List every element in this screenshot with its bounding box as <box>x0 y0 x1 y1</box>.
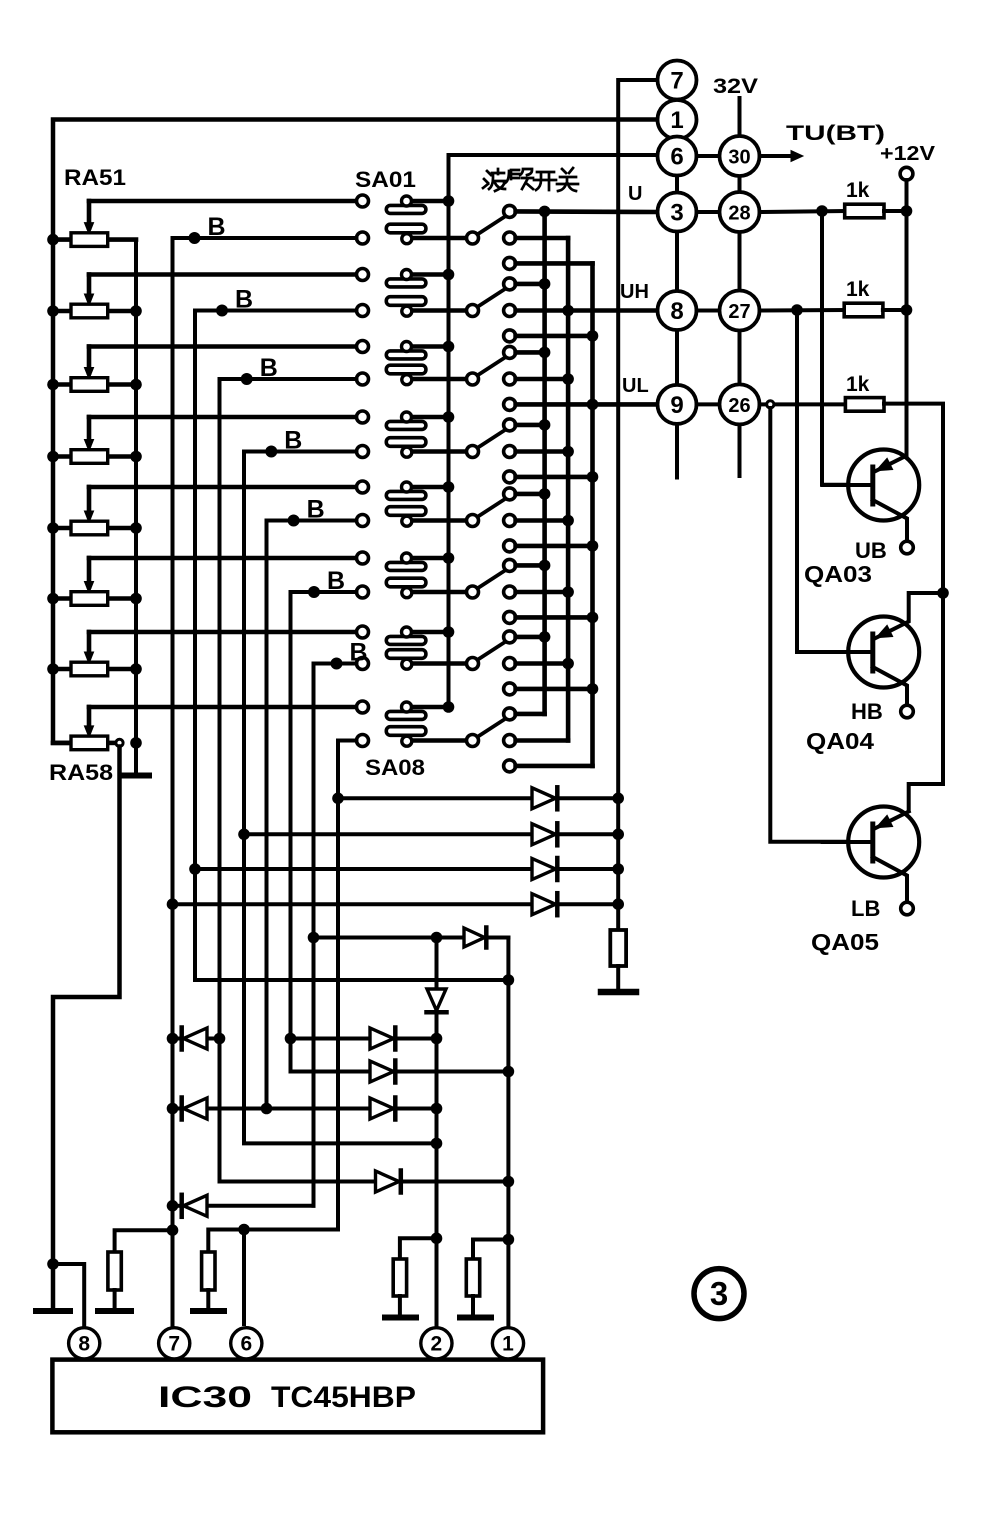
label U <box>628 183 642 205</box>
svg-text:1k: 1k <box>846 278 870 301</box>
junction bus2 <box>562 586 574 598</box>
junction bus2 <box>562 515 574 527</box>
svg-text:28: 28 <box>728 203 750 225</box>
junction bus2 <box>562 305 574 317</box>
junction on pin7 riser <box>167 1224 179 1236</box>
potentiometer RA52 <box>53 275 136 318</box>
label SA08 <box>365 755 425 780</box>
junction lower-left (pin 8 tap) <box>47 1258 59 1270</box>
wire: diode row 3 <box>195 867 618 871</box>
transistor QA04 (PNP) <box>806 617 919 755</box>
terminal circle pin 30 <box>720 136 760 176</box>
diode D-A (pointing right) <box>464 928 486 948</box>
junction bus3 <box>587 471 599 483</box>
ground (below RA58 bus) <box>121 743 149 776</box>
junction on pin7 riser <box>167 1103 179 1115</box>
band-switch wafer 7 (rotary contacts) <box>467 631 516 695</box>
junction on B2 riser (diode row) <box>189 863 201 875</box>
junction SA bus row 7 <box>443 626 455 638</box>
terminal circle pin 3 <box>658 193 697 232</box>
wire: pot wiper row to SA07 top terminal <box>89 630 356 635</box>
potentiometer RA55 <box>53 487 136 535</box>
terminal circle pin 1 <box>658 100 697 139</box>
IC pin 6 circle <box>231 1328 262 1359</box>
junction on pot bus <box>130 522 142 534</box>
label SA01 <box>355 167 416 192</box>
svg-text:TU(BT): TU(BT) <box>786 122 885 145</box>
svg-text:LB: LB <box>851 896 880 921</box>
wire net B8 (SA08 riser to row I) <box>208 741 356 1253</box>
wire: pot wiper row to SA03 top terminal <box>89 344 356 349</box>
wire: main bus from pin 7 to matrix pull-down <box>618 80 657 930</box>
svg-text:SA08: SA08 <box>365 755 425 780</box>
junction bus1 <box>539 631 551 643</box>
wire net B1 (SA01 to IC pin 7 riser) <box>173 238 357 1328</box>
wire net B3 (SA03 riser to row F) <box>220 379 509 1182</box>
transistor QA05 (PNP) <box>811 807 919 956</box>
wire: to IC pin 8 <box>53 1264 84 1328</box>
IC pin 2 circle <box>421 1328 452 1359</box>
wire: wafer8 top contact to bus1 <box>516 712 545 717</box>
junction bus1 <box>539 560 551 572</box>
svg-text:TC45HBP: TC45HBP <box>271 1381 416 1414</box>
band-switch wafer 1 (rotary contacts) <box>467 205 516 269</box>
diode DR3 (pointing right) <box>532 858 557 880</box>
svg-text:+12V: +12V <box>880 143 936 165</box>
junction bus1 <box>539 206 551 218</box>
wire: row C left segment <box>173 1037 220 1041</box>
wire net B2 (SA02 riser to row B) <box>195 311 508 981</box>
diode DR2 (pointing right) <box>532 823 557 845</box>
pushbutton switch SA06 <box>357 552 468 598</box>
wire: QA05 base riser <box>770 408 848 842</box>
wire: circle6-30 link <box>697 154 720 158</box>
wire: wafer6 mid contact to bus2 <box>516 590 569 595</box>
terminal +12V <box>900 167 913 180</box>
band-switch wafer 6 (rotary contacts) <box>467 559 516 623</box>
wire: RA58 output to lower-left ground rail <box>53 747 120 1308</box>
diode D-EL (pointing left) <box>182 1098 207 1120</box>
wire+ground pin2 resistor <box>385 1296 416 1318</box>
wire: pot wiper row to SA04 top terminal <box>89 415 356 420</box>
junction SA bus row 8 <box>443 701 455 713</box>
potentiometer RA54 <box>53 417 136 463</box>
svg-text:1k: 1k <box>846 373 870 396</box>
net label B (unit 5) <box>288 496 325 527</box>
junction on pot bus <box>130 451 142 463</box>
resistor R-pin2 <box>393 1259 406 1296</box>
wire: circle8-27 link <box>697 309 720 313</box>
junction on pot bus <box>130 593 142 605</box>
svg-text:30: 30 <box>728 147 750 169</box>
wire: wafer6 bottom contact to bus3 <box>516 615 593 620</box>
wire: band bus 1 (top contacts) <box>542 211 547 714</box>
IC pin 7 circle <box>159 1328 190 1359</box>
label UH <box>620 281 649 303</box>
arrow TU(BT) <box>760 122 886 162</box>
svg-text:7: 7 <box>168 1333 180 1356</box>
wire: pot wiper row to SA02 top terminal <box>89 272 356 277</box>
wire: circle-6 row to SA common bus <box>449 155 658 707</box>
junction on pot bus <box>130 737 142 749</box>
wire net B5 (SA05 riser) <box>267 521 357 1109</box>
terminal circle pin 6 <box>658 137 697 176</box>
wire: QA04 base riser <box>797 310 847 652</box>
net label B (unit 4) <box>265 427 302 458</box>
junction row I / pin6 riser <box>238 1224 250 1236</box>
wire: pot wiper row to SA01 top terminal <box>89 199 356 204</box>
resistor R-pin7 <box>108 1252 121 1290</box>
junction bus2 <box>562 446 574 458</box>
svg-text:26: 26 <box>728 395 750 417</box>
wire: circle9-26 link <box>697 402 720 406</box>
resistor 1k-3 <box>845 373 884 411</box>
junction row D / pin1 riser <box>503 1066 515 1078</box>
wire: row A <box>314 936 509 940</box>
junction on left frame (pot 3 row) <box>47 379 59 391</box>
svg-text:U: U <box>628 183 642 205</box>
resistor 1k-1 <box>845 179 884 218</box>
pushbutton switch SA05 <box>357 481 468 527</box>
junction row B / pin1 riser <box>503 974 515 986</box>
junction bus1 <box>539 347 551 359</box>
wire: wafer7 top contact to bus1 <box>516 635 545 640</box>
band-switch wafer 4 (rotary contacts) <box>467 419 516 483</box>
junction on left frame (pot 1 row) <box>47 234 59 246</box>
svg-text:RA51: RA51 <box>64 165 126 190</box>
wire: row H <box>173 1204 314 1208</box>
junction main bus / diode row <box>612 863 624 875</box>
node (open) QA05 base tap <box>767 401 774 408</box>
band-switch wafer 3 (rotary contacts) <box>467 346 516 410</box>
junction bus3 <box>587 330 599 342</box>
terminal circle pin 27 <box>720 291 760 331</box>
diode D-F (row F, pointing right) <box>376 1171 401 1193</box>
diode D-D (row D, pointing right) <box>370 1061 395 1083</box>
wire: wafer7 mid contact to bus2 <box>516 661 569 666</box>
junction bus3 <box>587 683 599 695</box>
wire: wafer2 top contact to bus1 <box>516 282 545 287</box>
wire: pin-1 net top rail and left frame bus <box>53 120 658 743</box>
wire: wafer1 mid contact to bus2 <box>516 236 569 241</box>
wire: band bus 3 (bottom contacts) <box>590 263 595 766</box>
junction on left frame (pot 7 row) <box>47 663 59 675</box>
junction QA03 base tap <box>816 205 828 217</box>
wire: diode row 2 <box>244 832 618 836</box>
net label B (unit 3) <box>241 354 278 385</box>
junction rail/1k-2 <box>901 304 913 316</box>
wire: 1k-3 to emitter rail of QA04/QA05 <box>884 404 943 810</box>
wire+ground pin1 resistor <box>460 1296 491 1318</box>
wire: pot wiper row to SA06 top terminal <box>89 556 356 561</box>
junction on left frame (pot 6 row) <box>47 593 59 605</box>
resistor R-pin1 <box>466 1259 479 1296</box>
svg-text:3: 3 <box>670 200 683 227</box>
label RA51 <box>64 165 126 190</box>
junction on left frame (pot 2 row) <box>47 305 59 317</box>
wire: +12V rail <box>905 180 909 456</box>
diode D-ER (pointing right) <box>370 1098 395 1120</box>
wire: QA03 emitter to +12V rail <box>905 454 907 458</box>
junction riser8 (diode row 1) <box>332 793 344 805</box>
junction on left frame (pot 4 row) <box>47 451 59 463</box>
svg-text:QA03: QA03 <box>804 561 872 587</box>
wire: wafer7 bottom contact to bus3 <box>516 687 593 692</box>
svg-text:1: 1 <box>670 107 683 134</box>
junction on left frame (pot 5 row) <box>47 522 59 534</box>
svg-text:HB: HB <box>851 699 883 724</box>
junction bus3 <box>587 399 599 411</box>
potentiometer RA51 <box>53 201 136 246</box>
wire: row UH (wafer2 mid to pin 8) <box>516 308 658 313</box>
wire: wafer5 bottom contact to bus3 <box>516 544 593 549</box>
svg-text:6: 6 <box>240 1333 252 1356</box>
wire: row U to 1k-1 <box>760 211 845 212</box>
junction bus2 <box>562 658 574 670</box>
wire: wafer5 mid contact to bus2 <box>516 518 569 523</box>
wire: IC pin 6 riser <box>242 1230 246 1325</box>
diode D-HL (pointing left) <box>182 1195 207 1217</box>
wire: diode row 1 <box>338 796 618 800</box>
terminal circle pin 28 <box>720 192 760 232</box>
band-switch wafer 2 (rotary contacts) <box>467 278 516 342</box>
junction row C / pin2 riser <box>431 1033 443 1045</box>
junction 943-rail / QA04 emitter <box>937 587 949 599</box>
junction main bus / diode row <box>612 829 624 841</box>
wire: QA03 base riser <box>822 211 847 485</box>
wire: 1k-2 to rail <box>883 308 907 312</box>
label RA58 <box>49 760 113 785</box>
wire: row E <box>173 1107 437 1111</box>
wire: wafer3 mid contact to bus2 <box>516 377 569 382</box>
RA58 output terminal circle <box>116 739 123 746</box>
junction on pot bus <box>130 663 142 675</box>
svg-text:7: 7 <box>670 68 683 95</box>
diode D-C (row C, pointing right) <box>370 1028 395 1050</box>
svg-text:QA04: QA04 <box>806 728 874 754</box>
wire: wafer4 bottom contact to bus3 <box>516 475 593 480</box>
net label B (unit 1) <box>189 213 226 244</box>
label +12V <box>880 143 936 165</box>
wire: QA05 emitter wire <box>905 812 909 814</box>
wire: wafer1 bottom contact to bus3 <box>516 261 593 266</box>
pushbutton switch SA03 <box>357 341 468 386</box>
svg-text:B: B <box>327 567 345 595</box>
potentiometer RA53 <box>53 347 136 392</box>
junction bus1 <box>539 488 551 500</box>
junction on pin7 riser <box>167 1200 179 1212</box>
potentiometer RA56 <box>53 558 136 605</box>
net label B (unit 2) <box>216 286 253 317</box>
wire: wafer6 top contact to bus1 <box>516 563 545 568</box>
svg-text:UL: UL <box>622 375 649 397</box>
junction main bus / diode row <box>612 793 624 805</box>
svg-text:1k: 1k <box>846 179 870 202</box>
junction B3/row C <box>214 1033 226 1045</box>
wire: 1k-1 to rail <box>884 209 907 213</box>
wire: QA04 emitter wire <box>905 593 943 624</box>
svg-text:8: 8 <box>78 1333 90 1356</box>
junction SA bus row 4 <box>443 411 455 423</box>
resistor R-pin6 <box>202 1252 215 1290</box>
terminal circle pin 9 <box>658 385 697 424</box>
wire: row U (wafer1 top to pin 3) <box>516 209 658 214</box>
svg-text:3: 3 <box>710 1275 728 1312</box>
sheet number 3 (circled) <box>694 1269 744 1319</box>
junction rail/1k-1 <box>901 205 913 217</box>
diode D-CL (pointing left) <box>182 1028 207 1050</box>
wire: wafer2 bottom contact to bus3 <box>516 334 593 339</box>
IC box IC30 TC45HBP <box>52 1360 543 1433</box>
diode DR1 (pointing right) <box>532 787 557 809</box>
junction on pin7 riser <box>167 1033 179 1045</box>
junction SA bus row 2 <box>443 269 455 281</box>
wire: wafer8 bottom contact to bus3 <box>516 764 593 769</box>
pushbutton switch SA02 <box>357 269 468 317</box>
terminal circle pin 8 <box>658 291 697 330</box>
pushbutton switch SA08 <box>357 701 468 747</box>
svg-text:8: 8 <box>670 298 683 325</box>
wire: pin 7 pull-down hook <box>115 1230 173 1252</box>
svg-text:IC30: IC30 <box>158 1381 252 1414</box>
wire: wafer4 top contact to bus1 <box>516 423 545 428</box>
diode DR4 (pointing right) <box>532 893 557 915</box>
wire: pot wiper row to SA08 top terminal <box>89 705 356 710</box>
svg-text:2: 2 <box>431 1333 443 1356</box>
junction B7/row A <box>308 932 320 944</box>
junction bus1 <box>539 419 551 431</box>
band-switch wafer 8 (rotary contacts) <box>467 708 516 772</box>
junction pin1 hook <box>503 1234 515 1246</box>
wire: IC pin 1 riser <box>506 938 510 1328</box>
svg-text:B: B <box>208 213 226 241</box>
junction on B4 riser (diode row) <box>238 829 250 841</box>
wire: band bus 2 (mid contacts) <box>566 238 571 741</box>
junction row E / pin2 riser <box>431 1103 443 1115</box>
ground (main bus) <box>601 989 636 996</box>
wire: main bus resistor to ground <box>616 966 620 988</box>
svg-text:6: 6 <box>670 144 683 171</box>
junction main bus / diode row <box>612 898 624 910</box>
junction row A / pin2 riser top <box>431 932 443 944</box>
junction bus3 <box>587 540 599 552</box>
wire: pin 1 pull-down hook <box>473 1240 508 1260</box>
svg-text:B: B <box>307 496 325 524</box>
potentiometer RA57 <box>53 632 136 676</box>
svg-text:9: 9 <box>670 392 683 419</box>
junction pin2 hook <box>431 1233 443 1245</box>
wire: wafer5 top contact to bus1 <box>516 492 545 497</box>
wire+ground pin6 resistor <box>193 1290 224 1311</box>
svg-text:SA01: SA01 <box>355 167 416 192</box>
wire: row UL to 1k-3 <box>760 402 846 406</box>
band-switch wafer 5 (rotary contacts) <box>467 488 516 552</box>
junction B6/row C <box>285 1033 297 1045</box>
net label B (unit 6) <box>308 567 345 598</box>
wire: circle3-28 link <box>697 210 720 214</box>
wire: pin 2 pull-down hook <box>400 1238 437 1259</box>
svg-text:32V: 32V <box>713 75 758 98</box>
label 波段开关 (band switch) <box>483 168 578 191</box>
resistor 1k-2 <box>844 278 883 317</box>
wire: diode row 4 <box>173 902 619 906</box>
wire: row UH to 1k-2 <box>760 308 845 313</box>
junction SA bus row 3 <box>443 341 455 353</box>
pushbutton switch SA07 <box>357 626 468 670</box>
svg-text:B: B <box>260 354 278 382</box>
svg-text:B: B <box>284 427 302 455</box>
wire net B4 (SA04 riser to row G) <box>244 452 437 1144</box>
svg-text:27: 27 <box>728 301 750 323</box>
wire+ground pin7 resistor <box>98 1290 131 1311</box>
wire: row UL (wafer3 bottom to pin 9) <box>516 402 658 407</box>
junction on pot bus <box>130 379 142 391</box>
resistor on main bus <box>610 930 626 966</box>
pushbutton switch SA01 <box>357 195 468 244</box>
terminal circle pin 7 <box>658 61 697 100</box>
IC pin 1 circle <box>492 1328 523 1359</box>
junction row G / pin2 riser <box>431 1138 443 1150</box>
junction on pin7 riser <box>167 898 179 910</box>
diode D-P2 (pointing down, on pin2 riser) <box>427 989 447 1012</box>
svg-text:UB: UB <box>855 538 887 563</box>
ground (lower-left) <box>36 1308 70 1314</box>
pushbutton switch SA04 <box>357 411 468 458</box>
svg-text:UH: UH <box>620 281 649 303</box>
terminal circle pin 26 <box>720 384 760 424</box>
svg-text:1: 1 <box>502 1333 514 1356</box>
wire: IC pin 2 riser <box>435 938 439 1328</box>
wire: wafer4 mid contact to bus2 <box>516 449 569 454</box>
junction bus3 <box>587 612 599 624</box>
IC pin 8 circle <box>69 1328 100 1359</box>
wire: wafer3 top contact to bus1 <box>516 350 545 355</box>
svg-text:B: B <box>235 286 253 314</box>
junction row F / pin1 riser <box>503 1176 515 1188</box>
net label B (unit 7) <box>331 639 368 670</box>
transistor QA03 (PNP) <box>804 450 919 588</box>
svg-text:B: B <box>350 639 368 667</box>
label 32V <box>713 75 758 98</box>
junction QA04 base tap <box>791 304 803 316</box>
wire: pot wiper row to SA05 top terminal <box>89 485 356 490</box>
svg-text:QA05: QA05 <box>811 929 879 955</box>
svg-text:RA58: RA58 <box>49 760 113 785</box>
junction bus2 <box>562 373 574 385</box>
wire net B7 (SA07 riser to row H) <box>314 664 357 1206</box>
wire: potentiometer right-side bus <box>134 240 138 745</box>
wire: wafer8 mid contact to bus2 <box>516 738 569 743</box>
potentiometer RA58 <box>53 707 116 750</box>
wire net B6 (SA06 riser, rows C and D) <box>291 592 509 1072</box>
junction SA bus row 1 <box>443 195 455 207</box>
junction SA bus row 5 <box>443 481 455 493</box>
junction SA bus row 6 <box>443 552 455 564</box>
junction on pot bus <box>130 305 142 317</box>
junction bus1 <box>539 278 551 290</box>
wire: col A inter-circle links <box>675 96 679 478</box>
junction B5/row E <box>261 1103 273 1115</box>
wire: col B inter-circle links <box>738 98 742 476</box>
label UL <box>622 375 649 397</box>
